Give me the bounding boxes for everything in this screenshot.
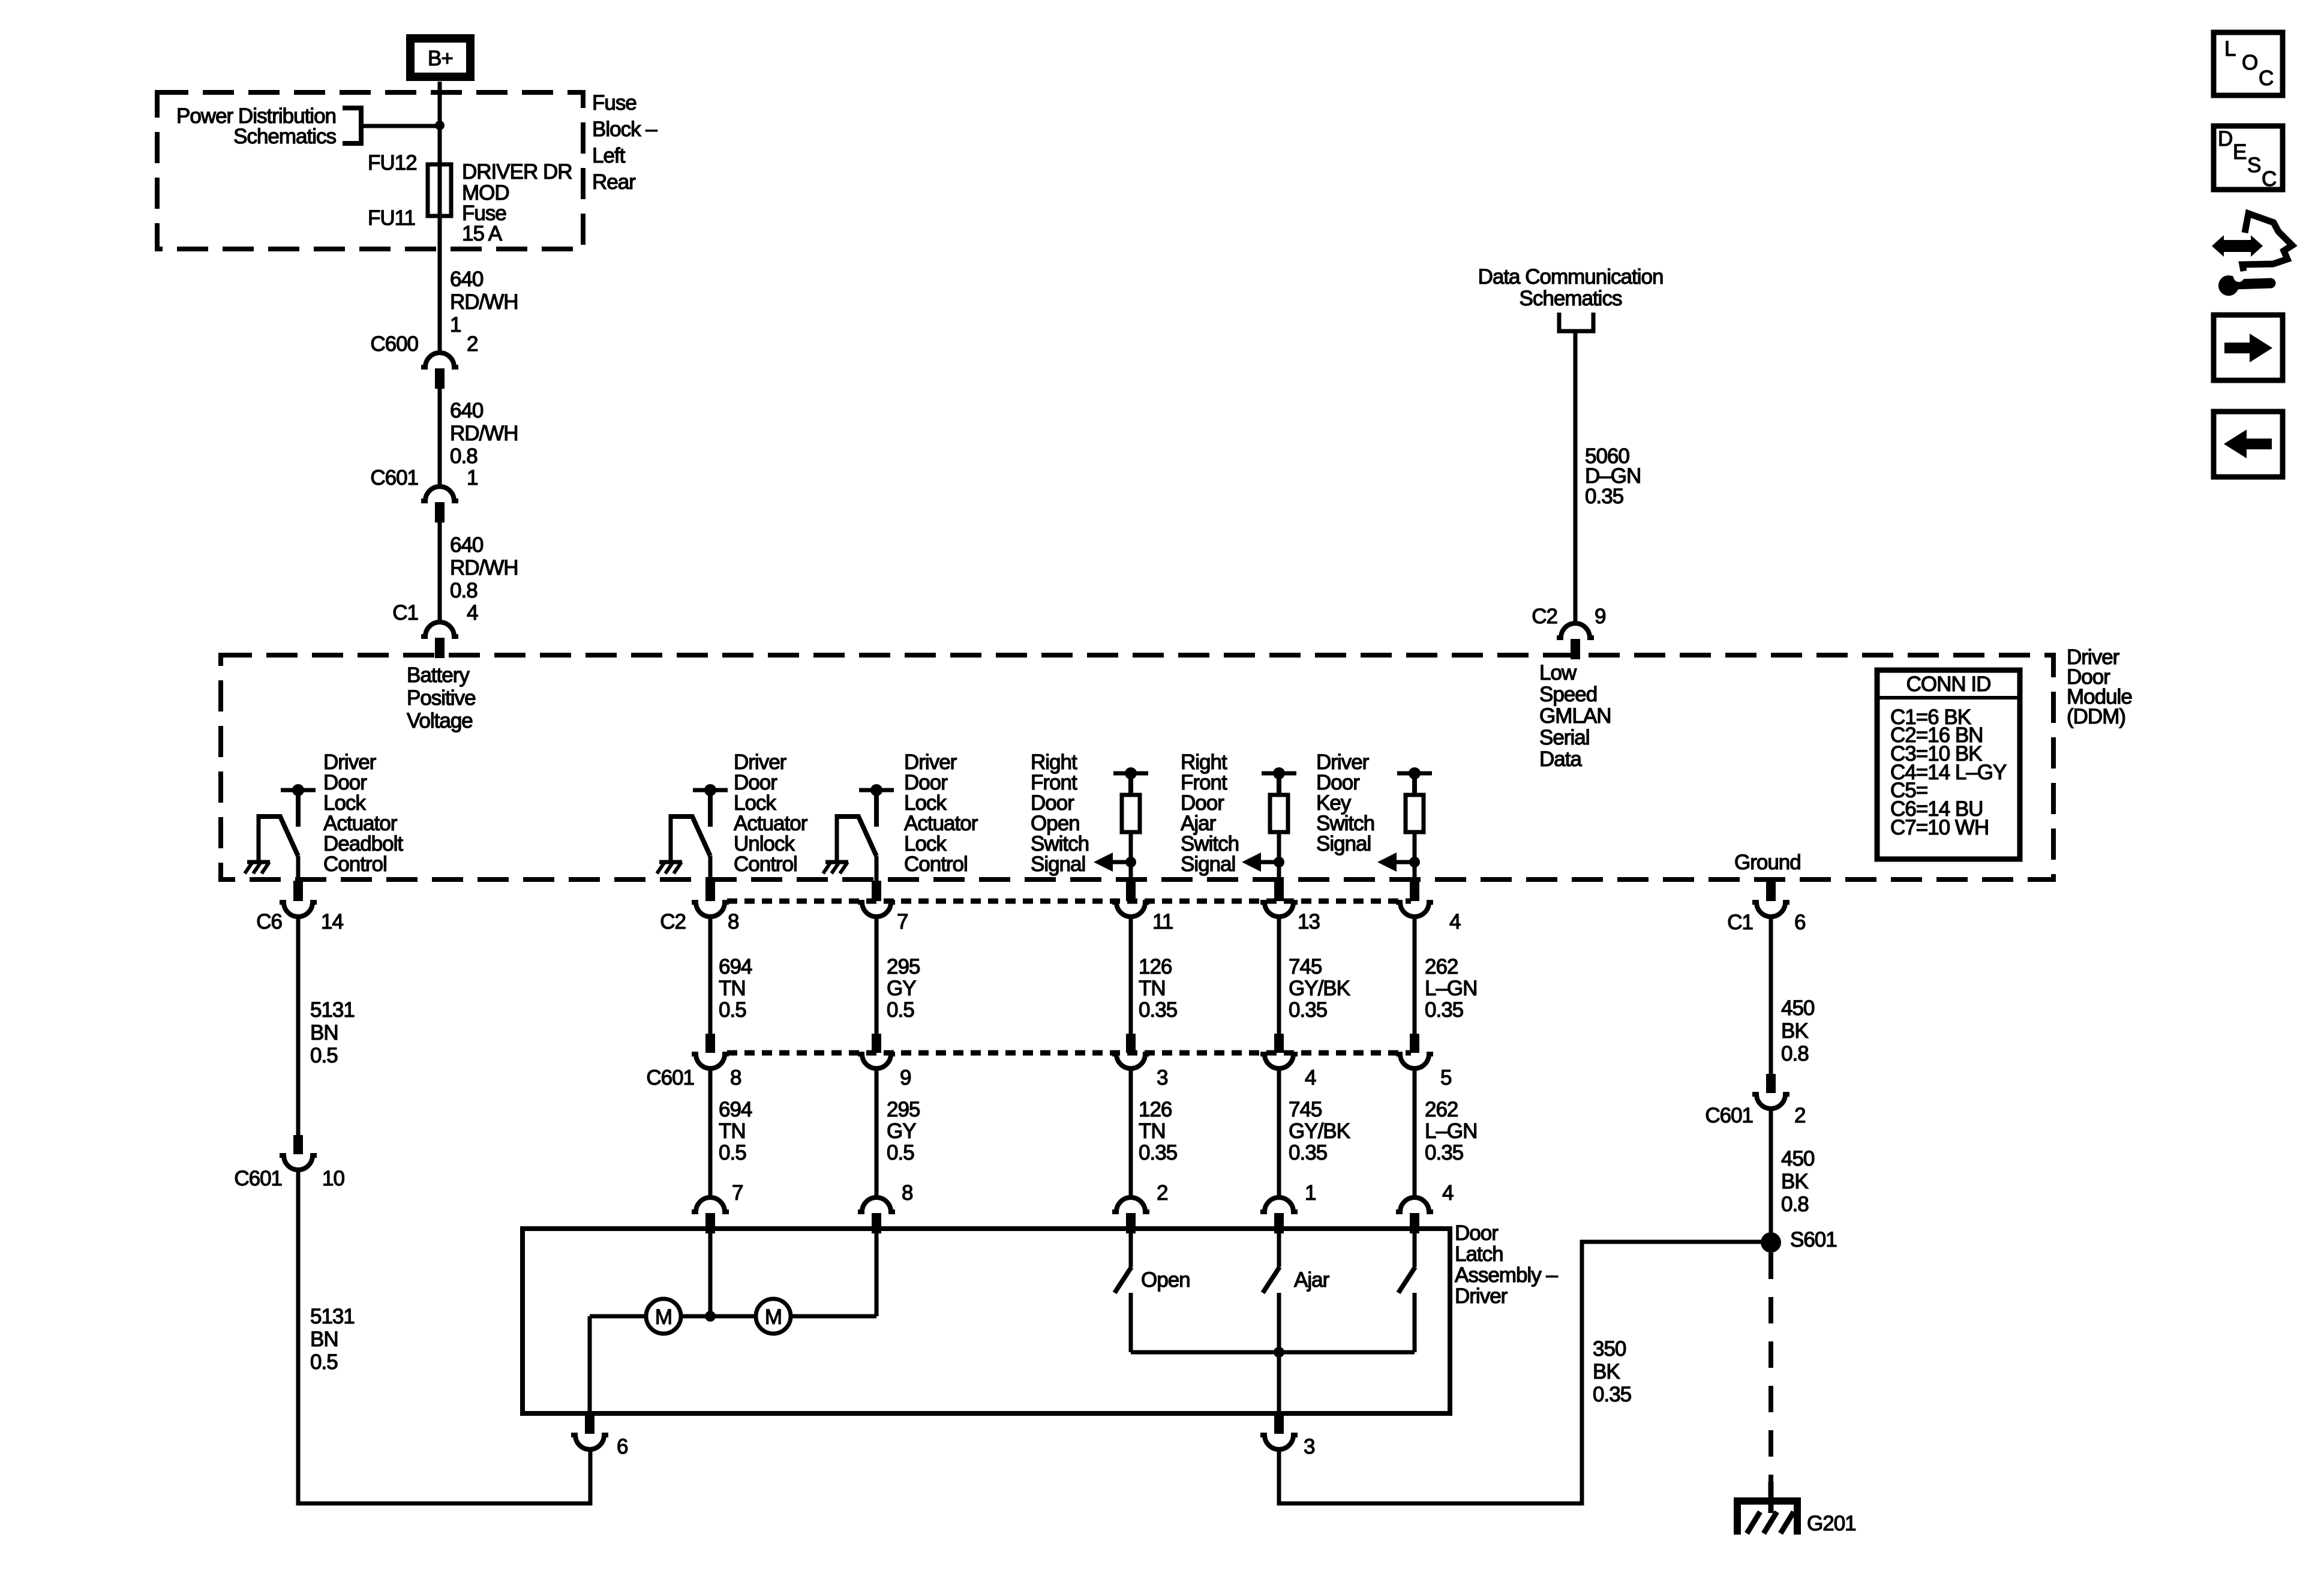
svg-text:BK: BK — [1781, 1170, 1808, 1193]
svg-text:GY: GY — [887, 977, 916, 1000]
lock pivot post — [835, 814, 839, 860]
svg-text:126: 126 — [1139, 955, 1172, 978]
svg-text:L–GN: L–GN — [1425, 977, 1477, 1000]
svg-text:8: 8 — [902, 1181, 912, 1205]
svg-text:BK: BK — [1593, 1360, 1620, 1383]
junction dot ajar signal arrow — [1274, 857, 1284, 867]
label Battery Positive Voltage — [407, 664, 476, 733]
driver door key switch signal: feed bar — [1397, 772, 1432, 776]
svg-text:C1: C1 — [392, 601, 418, 625]
connector C1 terminal 4 DDM — [421, 622, 458, 658]
label Low Speed GMLAN Serial Data — [1539, 661, 1611, 771]
svg-text:640: 640 — [450, 268, 484, 291]
svg-text:TN: TN — [1139, 1119, 1166, 1143]
svg-text:15 A: 15 A — [462, 222, 503, 245]
CONN ID table — [1877, 670, 2020, 859]
svg-text:14: 14 — [321, 910, 343, 933]
svg-text:0.35: 0.35 — [1425, 998, 1463, 1022]
connector C2 multi-pin dotted line — [727, 899, 1411, 904]
svg-text:BN: BN — [310, 1328, 338, 1351]
label wire 640 RD/WH 1 — [450, 268, 518, 337]
label wire 694 TN 0.5 lower — [719, 1098, 752, 1164]
ajar signal post — [1277, 773, 1281, 796]
wire S601 to G201 dashed — [1768, 1253, 1773, 1500]
label wire 126 TN 0.35 lower — [1139, 1098, 1177, 1164]
switch ajar: upper contact — [1277, 1231, 1281, 1267]
label wire 450 BK 0.8 — [1781, 996, 1815, 1065]
off-page bracket power distribution — [343, 108, 361, 143]
svg-text:Speed: Speed — [1539, 683, 1597, 706]
label wire 350 BK 0.35 — [1593, 1337, 1631, 1406]
connector C6 terminal 14 — [280, 881, 317, 917]
junction dot unlock feed — [704, 784, 716, 796]
svg-text:450: 450 — [1781, 1147, 1815, 1170]
svg-text:11: 11 — [1152, 910, 1173, 933]
label wire 295 GY 0.5 lower — [887, 1098, 920, 1164]
svg-text:M: M — [655, 1305, 672, 1329]
deadbolt pivot post — [257, 814, 261, 860]
svg-text:TN: TN — [719, 1119, 746, 1143]
wire latch pin 7 to motor junction — [708, 1231, 713, 1316]
svg-text:6: 6 — [1794, 911, 1805, 934]
label wire 262 L-GN 0.35 — [1425, 955, 1477, 1022]
svg-text:GY/BK: GY/BK — [1289, 977, 1350, 1000]
wire C601-2 to S601, 450 BK 0.8 — [1769, 1107, 1773, 1248]
open signal post — [1128, 773, 1133, 796]
svg-text:B+: B+ — [428, 47, 453, 70]
actuator driver door lock deadbolt: feed bar — [281, 788, 316, 792]
svg-text:295: 295 — [887, 955, 920, 978]
connector C601 terminal 2 ground — [1752, 1074, 1789, 1109]
junction dot open signal arrow — [1125, 857, 1136, 867]
connector C1 terminal 6 ground — [1752, 881, 1789, 917]
svg-text:TN: TN — [1139, 977, 1166, 1000]
connector latch terminal 4 — [1396, 1197, 1433, 1233]
RF door ajar switch signal: feed bar — [1262, 772, 1296, 776]
label Driver Door Lock Actuator Lock Control — [904, 751, 978, 876]
svg-text:0.35: 0.35 — [1593, 1383, 1631, 1406]
switch open: upper contact — [1129, 1231, 1133, 1267]
unlock fixed contact post — [708, 790, 713, 827]
junction dot lock feed — [870, 784, 882, 796]
svg-text:0.35: 0.35 — [1139, 998, 1177, 1022]
junction dot ajar signal feed — [1273, 767, 1285, 779]
wire C601-9 to latch pin 8, 295 GY 0.5 — [875, 1067, 879, 1199]
svg-text:C7=10 WH: C7=10 WH — [1890, 816, 1989, 839]
svg-text:BK: BK — [1781, 1019, 1808, 1043]
svg-text:C2: C2 — [1532, 605, 1557, 628]
wire C601-3 to latch pin 2, 126 TN 0.35 — [1129, 1067, 1133, 1199]
connector C2 terminal 7 — [858, 881, 895, 917]
svg-text:2: 2 — [1794, 1104, 1805, 1127]
svg-text:C6: C6 — [256, 910, 282, 933]
label wire 5131 BN 0.5 lower — [310, 1305, 355, 1374]
label wire 745 GY/BK 0.35 lower — [1289, 1098, 1350, 1164]
label Driver Door Lock Actuator Deadbolt Control — [323, 751, 403, 876]
svg-text:0.5: 0.5 — [719, 998, 746, 1022]
svg-text:9: 9 — [900, 1066, 911, 1089]
svg-text:Control: Control — [904, 852, 968, 876]
svg-text:450: 450 — [1781, 996, 1815, 1020]
deadbolt fixed contact post — [296, 790, 301, 827]
svg-text:5: 5 — [1440, 1066, 1451, 1089]
svg-text:Ground: Ground — [1734, 851, 1801, 874]
svg-text:C601: C601 — [234, 1167, 282, 1190]
svg-text:0.5: 0.5 — [310, 1044, 338, 1067]
wire C601-8 to latch pin 7, 694 TN 0.5 — [708, 1067, 713, 1199]
svg-text:350: 350 — [1593, 1337, 1626, 1361]
connector C2 terminal 13 — [1260, 881, 1298, 917]
signal arrow open — [1094, 852, 1131, 872]
svg-text:Data: Data — [1539, 748, 1582, 771]
connector C601 terminal 8 — [692, 1034, 729, 1068]
connector latch terminal 6 — [571, 1415, 608, 1449]
svg-text:Driver: Driver — [1455, 1284, 1508, 1308]
deadbolt switch blade — [259, 816, 298, 856]
svg-text:Rear: Rear — [592, 170, 636, 194]
label wire 5060 D-GN 0.35 — [1585, 445, 1641, 508]
battery positive B+ symbol — [410, 38, 470, 77]
label wire 640 RD/WH 0.8 lower — [450, 533, 518, 602]
wire switch common horizontal — [1131, 1350, 1415, 1355]
switch ajar lower contact wire to latch pin 3 — [1277, 1293, 1281, 1415]
wire ajar signal to pin 13 — [1277, 832, 1281, 882]
connector C601 terminal 10 — [280, 1135, 317, 1170]
svg-text:4: 4 — [467, 601, 478, 625]
svg-text:D: D — [2218, 127, 2232, 151]
svg-text:694: 694 — [719, 955, 752, 978]
switch open lower contact wire — [1129, 1293, 1133, 1352]
fuse DRIVER DR MOD 15A — [428, 164, 451, 216]
svg-text:Block –: Block – — [592, 118, 657, 141]
label wire 295 GY 0.5 — [887, 955, 920, 1022]
wire C2-11 to C601-3, 126 TN 0.35 — [1129, 915, 1133, 1035]
wire B+ to fuse FU — [438, 82, 442, 355]
label Door Latch Assembly - Driver — [1455, 1221, 1558, 1308]
actuator driver door lock lock: feed bar — [859, 788, 894, 792]
wire tap to power distribution bracket — [361, 124, 437, 128]
icon arrow left box — [2214, 412, 2283, 477]
svg-text:0.8: 0.8 — [1781, 1042, 1809, 1065]
wire C6-14 to C601-10, 5131 BN 0.5 — [296, 915, 301, 1137]
svg-text:262: 262 — [1425, 955, 1458, 978]
svg-text:0.5: 0.5 — [719, 1141, 746, 1164]
svg-text:CONN ID: CONN ID — [1906, 673, 1991, 696]
door latch assembly driver box — [523, 1229, 1450, 1413]
svg-text:745: 745 — [1289, 955, 1322, 978]
svg-text:(DDM): (DDM) — [2067, 705, 2125, 728]
RF door open switch signal: feed bar — [1113, 772, 1148, 776]
wire C2-8 to C601-8, 694 TN 0.5 — [708, 915, 713, 1035]
motor M lock — [756, 1299, 791, 1334]
svg-text:8: 8 — [728, 910, 738, 933]
label Right Front Door Ajar Switch Signal — [1181, 751, 1239, 876]
junction dot open signal feed — [1125, 767, 1137, 779]
label wire 694 TN 0.5 — [719, 955, 752, 1022]
svg-text:Data Communication: Data Communication — [1478, 265, 1664, 289]
icon arrow right box — [2214, 315, 2283, 380]
svg-text:13: 13 — [1298, 910, 1320, 933]
svg-text:5131: 5131 — [310, 1305, 355, 1328]
svg-text:3: 3 — [1157, 1066, 1167, 1089]
wire C2-7 to C601-9, 295 GY 0.5 — [875, 915, 879, 1035]
switch key: upper contact — [1413, 1231, 1417, 1267]
svg-text:Fuse: Fuse — [592, 91, 636, 115]
label wire 262 L-GN 0.35 lower — [1425, 1098, 1477, 1164]
svg-text:126: 126 — [1139, 1098, 1172, 1121]
svg-text:Low: Low — [1539, 661, 1577, 685]
wire C2-4 to C601-5, 262 L-GN 0.35 — [1413, 915, 1417, 1035]
svg-text:10: 10 — [322, 1167, 344, 1190]
label Power Distribution Schematics — [176, 104, 336, 148]
connector latch terminal 2 — [1112, 1197, 1149, 1233]
svg-text:0.35: 0.35 — [1425, 1141, 1463, 1164]
junction dot motors — [705, 1311, 716, 1322]
wire deadbolt to C6 pin 14 — [296, 856, 301, 882]
svg-text:Control: Control — [323, 852, 387, 876]
connector C601 terminal 9 — [858, 1034, 895, 1068]
lock fixed contact post — [874, 790, 879, 827]
svg-text:GY/BK: GY/BK — [1289, 1119, 1350, 1143]
svg-text:E: E — [2233, 140, 2246, 164]
svg-text:C601: C601 — [646, 1066, 694, 1089]
ground symbol lock internal — [823, 862, 848, 873]
off-page bracket data communication — [1559, 313, 1593, 331]
svg-text:Battery: Battery — [407, 664, 470, 687]
signal arrow ajar — [1242, 852, 1279, 872]
lock switch blade — [837, 816, 876, 856]
svg-text:3: 3 — [1304, 1435, 1314, 1458]
svg-text:S601: S601 — [1790, 1228, 1837, 1251]
junction dot key signal arrow — [1409, 857, 1420, 867]
svg-text:RD/WH: RD/WH — [450, 290, 518, 314]
unlock pivot post — [669, 814, 673, 860]
connector C601 terminal 3 — [1112, 1034, 1149, 1068]
label Fuse Block - Left Rear — [592, 91, 657, 194]
svg-text:0.35: 0.35 — [1139, 1141, 1177, 1164]
svg-text:RD/WH: RD/WH — [450, 422, 518, 445]
key signal post — [1412, 773, 1417, 796]
connector latch terminal 7 — [692, 1197, 729, 1233]
resistor open switch signal — [1122, 795, 1140, 832]
svg-text:Signal: Signal — [1181, 852, 1235, 876]
svg-text:Voltage: Voltage — [407, 709, 473, 733]
svg-text:0.8: 0.8 — [1781, 1193, 1809, 1216]
svg-text:8: 8 — [730, 1066, 741, 1089]
svg-text:RD/WH: RD/WH — [450, 556, 518, 580]
wire open signal to pin 11 — [1129, 832, 1133, 882]
svg-text:0.35: 0.35 — [1585, 485, 1623, 508]
svg-text:4: 4 — [1442, 1181, 1454, 1205]
label Driver Door Module (DDM) — [2067, 646, 2132, 728]
svg-text:Ajar: Ajar — [1294, 1268, 1330, 1292]
svg-text:0.35: 0.35 — [1289, 998, 1327, 1022]
label DRIVER DR MOD Fuse 15 A — [462, 160, 572, 245]
svg-text:Positive: Positive — [407, 686, 476, 710]
icon LOC box — [2214, 32, 2283, 95]
wire C601-4 to latch pin 1, 745 GY/BK 0.35 — [1277, 1067, 1281, 1199]
svg-text:1: 1 — [1305, 1181, 1316, 1205]
svg-text:6: 6 — [617, 1435, 627, 1458]
svg-text:L: L — [2224, 37, 2236, 61]
wire key signal to pin 4 — [1413, 832, 1417, 882]
wire C600 to C601, 640 RD/WH 0.8 — [438, 389, 442, 489]
splice S601 — [1761, 1232, 1781, 1253]
svg-text:0.35: 0.35 — [1289, 1141, 1327, 1164]
resistor ajar switch signal — [1270, 795, 1288, 832]
wire motor branch horizontal — [590, 1314, 876, 1319]
icon DESC box — [2214, 126, 2283, 191]
svg-text:C600: C600 — [370, 332, 418, 356]
label Driver Door Lock Actuator Unlock Control — [734, 751, 808, 876]
svg-text:G201: G201 — [1807, 1512, 1856, 1535]
svg-text:Assembly –: Assembly – — [1455, 1263, 1558, 1287]
svg-text:C: C — [2259, 67, 2273, 90]
fuse block dashed box Fuse Block - Left Rear — [157, 92, 583, 249]
connector C601 multi-pin dotted line — [727, 1050, 1411, 1056]
svg-text:694: 694 — [719, 1098, 752, 1121]
label wire 640 RD/WH 0.8 — [450, 399, 518, 468]
signal arrow key — [1377, 852, 1415, 872]
motor M unlock — [646, 1299, 681, 1334]
label Driver Door Key Switch Signal — [1316, 751, 1374, 855]
svg-text:C1: C1 — [1727, 911, 1753, 934]
svg-text:Latch: Latch — [1455, 1242, 1503, 1266]
svg-text:L–GN: L–GN — [1425, 1119, 1477, 1143]
svg-text:Door: Door — [1455, 1221, 1499, 1245]
wire C601 to C1, 640 RD/WH 0.8 — [438, 523, 442, 624]
svg-text:S: S — [2247, 154, 2260, 177]
wire C2-13 to C601-4, 745 GY/BK 0.35 — [1277, 915, 1281, 1035]
switch key blade — [1398, 1267, 1415, 1293]
svg-text:0.8: 0.8 — [450, 579, 478, 602]
unlock switch blade — [671, 816, 710, 856]
wire data comm to C2 pin 9, 5060 D-GN 0.35 — [1574, 331, 1578, 626]
connector C2 terminal 8 — [692, 881, 729, 917]
svg-text:2: 2 — [1157, 1181, 1167, 1205]
svg-text:GY: GY — [887, 1119, 916, 1143]
svg-text:0.5: 0.5 — [887, 998, 914, 1022]
wire latch pin 3 to S601, 350 BK 0.35 — [1279, 1242, 1767, 1503]
svg-text:C2: C2 — [660, 910, 686, 933]
label Right Front Door Open Switch Signal — [1031, 751, 1089, 876]
svg-text:7: 7 — [897, 910, 908, 933]
svg-text:745: 745 — [1289, 1098, 1322, 1121]
svg-text:C601: C601 — [370, 466, 418, 490]
svg-text:1: 1 — [450, 313, 461, 337]
wire motor branch to latch pin 6 — [588, 1316, 592, 1415]
wire latch pin 8 riser — [875, 1231, 879, 1316]
svg-text:640: 640 — [450, 399, 484, 422]
svg-text:0.8: 0.8 — [450, 445, 478, 468]
resistor key switch signal — [1406, 795, 1424, 832]
svg-text:5131: 5131 — [310, 998, 355, 1022]
connector latch terminal 8 — [858, 1197, 895, 1233]
label wire 126 TN 0.35 — [1139, 955, 1177, 1022]
wire C1-6 to C601-2, 450 BK 0.8 — [1769, 915, 1773, 1076]
svg-text:FU11: FU11 — [368, 206, 415, 230]
svg-text:7: 7 — [732, 1181, 743, 1205]
connector C2 terminal 4 — [1396, 881, 1433, 917]
label wire 450 BK 0.8 lower — [1781, 1147, 1815, 1216]
svg-text:0.5: 0.5 — [310, 1350, 338, 1374]
connector C2 terminal 11 — [1112, 881, 1149, 917]
connector latch terminal 3 — [1260, 1415, 1298, 1449]
svg-text:4: 4 — [1305, 1066, 1316, 1089]
connector latch terminal 1 — [1260, 1197, 1298, 1233]
junction dot power distribution tap — [435, 121, 445, 130]
junction dot deadbolt feed — [292, 784, 304, 796]
switch key lower contact wire — [1413, 1293, 1417, 1352]
svg-text:O: O — [2242, 51, 2257, 74]
svg-text:295: 295 — [887, 1098, 920, 1121]
svg-text:640: 640 — [450, 533, 484, 557]
svg-text:Serial: Serial — [1539, 726, 1589, 749]
svg-text:C: C — [2262, 167, 2276, 191]
switch ajar blade — [1263, 1267, 1280, 1293]
wire C601-10 to latch pin 6, 5131 BN 0.5 — [298, 1169, 590, 1503]
label wire 745 GY/BK 0.35 — [1289, 955, 1350, 1022]
connector C601 terminal 4 — [1260, 1034, 1298, 1068]
svg-text:M: M — [765, 1305, 782, 1329]
junction dot key signal feed — [1409, 767, 1421, 779]
wire lock to C2 pin 7 — [875, 856, 879, 882]
ground G201 symbol — [1737, 1482, 1797, 1535]
label wire 5131 BN 0.5 — [310, 998, 355, 1067]
connector C600 terminal 2 — [421, 353, 458, 389]
svg-text:1: 1 — [467, 466, 478, 490]
svg-text:GMLAN: GMLAN — [1539, 704, 1611, 728]
label Data Communication Schematics — [1478, 265, 1664, 310]
svg-text:Signal: Signal — [1031, 852, 1085, 876]
svg-text:BN: BN — [310, 1021, 338, 1044]
actuator driver door lock unlock: feed bar — [693, 788, 728, 792]
connector C2 terminal 9 DDM — [1557, 623, 1594, 659]
svg-text:Left: Left — [592, 144, 626, 167]
svg-text:9: 9 — [1595, 605, 1605, 628]
svg-text:0.5: 0.5 — [887, 1141, 914, 1164]
svg-text:Control: Control — [734, 852, 797, 876]
svg-text:C601: C601 — [1705, 1104, 1753, 1127]
driver door module DDM dashed box — [221, 655, 2053, 879]
svg-text:Schematics: Schematics — [233, 125, 336, 148]
svg-text:Signal: Signal — [1316, 832, 1371, 855]
wire C601-5 to latch pin 4, 262 L-GN 0.35 — [1413, 1067, 1417, 1199]
svg-text:TN: TN — [719, 977, 746, 1000]
svg-text:Schematics: Schematics — [1520, 287, 1622, 310]
icon harness routing glyph — [2212, 214, 2292, 296]
switch open blade — [1115, 1267, 1131, 1293]
junction dot switch common — [1274, 1347, 1284, 1358]
svg-text:FU12: FU12 — [368, 151, 417, 175]
svg-text:262: 262 — [1425, 1098, 1458, 1121]
svg-text:2: 2 — [467, 332, 478, 356]
wire unlock to C2 pin 8 — [708, 856, 713, 882]
ground symbol deadbolt internal — [245, 862, 270, 873]
svg-text:DRIVER DR: DRIVER DR — [462, 160, 572, 184]
svg-text:Open: Open — [1141, 1268, 1190, 1292]
ground symbol unlock internal — [657, 862, 682, 873]
svg-text:4: 4 — [1449, 910, 1461, 933]
connector C601 terminal 5 — [1396, 1034, 1433, 1068]
connector C601 terminal 1 — [421, 487, 458, 523]
